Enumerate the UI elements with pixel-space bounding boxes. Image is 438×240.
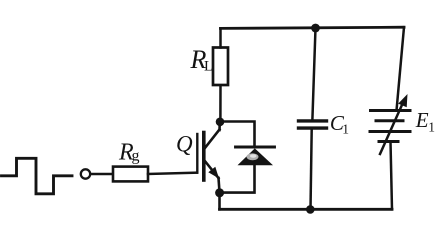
resistor Rg <box>113 167 148 182</box>
arrow: E1 variability <box>380 94 408 154</box>
resistor RL <box>213 48 228 86</box>
wire: Rg to gate of Q <box>148 173 197 174</box>
wire: collector node to diode cathode <box>220 122 255 148</box>
diode D (freewheeling, cathode up) <box>236 147 275 165</box>
label Rg <box>118 140 140 166</box>
battery E1 plates <box>370 111 410 142</box>
wire: top rail to C1 <box>312 28 315 120</box>
wire: top rail to E1 <box>397 27 405 110</box>
wire: diode anode to emitter node <box>220 165 255 193</box>
label C1 <box>330 111 349 136</box>
label E1 <box>415 108 435 134</box>
wire: bottom rail <box>220 208 393 211</box>
svg-text:E: E <box>415 108 429 132</box>
input terminal <box>81 169 90 178</box>
node: top rail / C1 junction <box>311 24 320 33</box>
svg-text:1: 1 <box>428 119 435 134</box>
svg-text:L: L <box>204 59 213 75</box>
svg-text:1: 1 <box>342 121 349 136</box>
wire: C1 to bottom rail <box>311 129 312 209</box>
wire: top rail <box>221 27 405 28</box>
wire: emitter node to bottom rail <box>218 193 221 209</box>
node: bottom rail / C1 junction <box>306 205 315 214</box>
wire: collector node to RL <box>219 85 222 122</box>
node: emitter junction <box>215 188 224 197</box>
wire: E1 to bottom rail <box>391 142 393 210</box>
node: collector junction <box>216 118 225 127</box>
transistor Q (IGBT) <box>197 122 220 192</box>
capacitor C1 <box>299 121 327 128</box>
label RL <box>190 45 214 75</box>
svg-text:Q: Q <box>176 132 193 157</box>
svg-text:g: g <box>132 148 140 165</box>
square-wave input signal source <box>2 158 73 194</box>
wire: RL to top-left corner <box>219 28 222 47</box>
wire: terminal to Rg <box>91 173 113 176</box>
